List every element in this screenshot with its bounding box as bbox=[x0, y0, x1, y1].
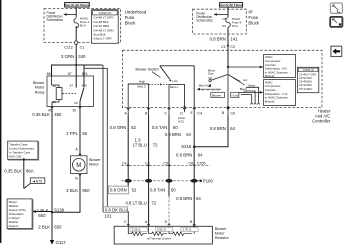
svg-text:52: 52 bbox=[132, 188, 137, 193]
svg-text:C6: C6 bbox=[230, 111, 235, 115]
splice S215 bbox=[181, 144, 195, 149]
reference box HVAC Compressor Controls 2 bbox=[264, 80, 296, 106]
svg-text:0.8 TAN: 0.8 TAN bbox=[150, 188, 165, 193]
svg-text:650: 650 bbox=[38, 213, 46, 218]
svg-text:20 A: 20 A bbox=[232, 24, 239, 28]
svg-text:340: 340 bbox=[78, 54, 86, 59]
wire relay branch down to resistor pin C bbox=[103, 65, 128, 226]
switch base line with left arrow bbox=[196, 88, 221, 91]
wire label 0.8 TAN 50 below P100 bbox=[150, 188, 176, 193]
controller pin B of C6 bbox=[222, 106, 235, 115]
svg-text:650: 650 bbox=[54, 225, 62, 230]
svg-text:Low: Low bbox=[172, 79, 178, 83]
svg-text:CONN ID: CONN ID bbox=[99, 11, 113, 15]
mode labels Blend Door / Off / Max A/C bbox=[199, 69, 216, 88]
nav button back-arrow bbox=[331, 46, 342, 56]
wire 0.8 BRN 141 from ip fuse down bbox=[210, 27, 238, 50]
auto switch pivot and arms bbox=[209, 67, 245, 107]
wire 0.8 ORN 52 pin A bbox=[110, 115, 137, 186]
svg-text:0.8 BRN: 0.8 BRN bbox=[176, 153, 192, 158]
svg-text:0.8 TAN: 0.8 TAN bbox=[152, 125, 167, 130]
svg-text:Relay: Relay bbox=[35, 90, 45, 94]
svg-text:B6: B6 bbox=[47, 72, 51, 76]
svg-text:G6: G6 bbox=[222, 24, 226, 28]
svg-text:72: 72 bbox=[153, 142, 158, 147]
svg-text:87: 87 bbox=[68, 72, 72, 76]
auto controller feed junction bbox=[227, 50, 229, 68]
wire label 0.8 BRN 64 below P100 bbox=[176, 196, 201, 201]
svg-text:64: 64 bbox=[196, 196, 201, 201]
svg-text:1.70 Ω: 1.70 Ω bbox=[182, 228, 192, 232]
boxed wire label 0.8 DK BLU 101 bbox=[104, 207, 128, 218]
wire branch bus to 87A side bbox=[84, 68, 107, 208]
svg-text:Max A/C: Max A/C bbox=[199, 84, 209, 88]
wire stub from Hot label to arrow junction bbox=[75, 7, 77, 18]
svg-text:Off: Off bbox=[208, 76, 212, 80]
svg-text:C7: C7 bbox=[145, 162, 150, 166]
blower switch label and pointer bbox=[136, 68, 161, 78]
svg-text:Motor: Motor bbox=[215, 232, 225, 236]
splice S138 bbox=[51, 208, 65, 214]
reference box HVAC Compressor Controls 1 bbox=[264, 55, 296, 79]
svg-text:C1=48 LT GRY: C1=48 LT GRY bbox=[299, 72, 317, 76]
resistor value labels bbox=[130, 227, 198, 240]
svg-text:Blower: Blower bbox=[212, 93, 221, 97]
label Heater And A/C Controller bbox=[312, 108, 331, 123]
controller pin B bbox=[145, 108, 150, 116]
svg-text:Motor: Motor bbox=[35, 86, 45, 90]
svg-text:LT BLU: LT BLU bbox=[133, 142, 147, 147]
label Hot At All Times (right) bbox=[220, 3, 243, 8]
node relay feed junction bbox=[75, 64, 77, 66]
relay box bbox=[47, 76, 94, 107]
svg-text:Underhood: Underhood bbox=[125, 9, 147, 14]
svg-text:0.35 BLK: 0.35 BLK bbox=[4, 168, 22, 173]
svg-text:0.35 BLK: 0.35 BLK bbox=[32, 112, 50, 117]
svg-text:NVG 236: NVG 236 bbox=[9, 154, 21, 158]
label Hot At All Times (left) bbox=[65, 3, 90, 8]
controller pin D with note bbox=[178, 106, 186, 124]
auto switch tiny labels bbox=[240, 78, 256, 91]
wire stub hot to arrow (right) bbox=[227, 7, 229, 17]
svg-text:2 BLK: 2 BLK bbox=[66, 188, 78, 193]
svg-text:60 A: 60 A bbox=[80, 24, 87, 28]
note Power Distribution Schematics (left) bbox=[47, 11, 64, 22]
svg-text:86A: 86A bbox=[26, 168, 34, 173]
svg-text:CONN ID: CONN ID bbox=[303, 68, 314, 72]
svg-text:Resistor: Resistor bbox=[215, 236, 230, 240]
wire to HVAC compressor reference 2 bbox=[239, 91, 264, 94]
svg-text:Hot At All Times: Hot At All Times bbox=[65, 3, 89, 7]
note Power Distribution Schematics (right) bbox=[196, 12, 213, 23]
svg-text:0.8 ORN: 0.8 ORN bbox=[110, 188, 127, 193]
label Blower Motor Relay bbox=[33, 81, 45, 94]
svg-text:Fuse: Fuse bbox=[125, 15, 135, 20]
svg-text:Block: Block bbox=[248, 21, 260, 26]
svg-text:High: High bbox=[139, 80, 145, 84]
arrow to Power Distribution Schematics (left) bbox=[63, 13, 76, 16]
svg-text:C4(p) LT GRY: C4(p) LT GRY bbox=[93, 37, 112, 41]
svg-text:F8: F8 bbox=[222, 17, 226, 21]
label Underhood Fuse Block bbox=[125, 9, 147, 25]
svg-text:C6: C6 bbox=[188, 162, 193, 166]
svg-text:Door: Door bbox=[208, 72, 214, 76]
svg-text:0.8 BRN: 0.8 BRN bbox=[210, 37, 226, 42]
boxed label Blower bbox=[211, 92, 225, 97]
svg-text:C2=52 BLK: C2=52 BLK bbox=[299, 76, 313, 80]
relay switch contacts and arm bbox=[62, 76, 84, 107]
svg-text:64: 64 bbox=[230, 126, 235, 131]
svg-text:3.24 Ω: 3.24 Ω bbox=[132, 228, 142, 232]
fuse HVAC Fuse 1 60A bbox=[74, 17, 90, 28]
svg-text:30: 30 bbox=[72, 108, 76, 112]
connector row P100 bbox=[122, 179, 214, 184]
svg-text:Blower: Blower bbox=[33, 81, 45, 85]
wire 0.8 BRN 64 pin E upper label bbox=[165, 115, 194, 226]
wire to HVAC compressor reference 1 bbox=[228, 66, 263, 69]
svg-text:C1: C1 bbox=[221, 45, 226, 49]
connector row C205 bbox=[122, 162, 211, 166]
svg-text:141: 141 bbox=[230, 37, 238, 42]
nav button 1 bbox=[330, 3, 342, 13]
svg-text:64: 64 bbox=[198, 153, 203, 158]
svg-text:72: 72 bbox=[151, 200, 156, 205]
resistor pin letters bbox=[124, 220, 196, 228]
svg-text:Blend: Blend bbox=[240, 87, 247, 91]
ground G117 bbox=[50, 236, 67, 245]
conn id table (controller) bbox=[297, 67, 318, 92]
svg-text:Blower Switch: Blower Switch bbox=[136, 68, 159, 72]
wire fuse to box bottom bbox=[75, 26, 77, 41]
nested contact wires to pins bbox=[241, 87, 260, 104]
svg-text:C112: C112 bbox=[64, 45, 73, 49]
svg-text:C205: C205 bbox=[197, 162, 206, 166]
controller pin C bbox=[164, 108, 170, 116]
svg-text:3.02 Ω: 3.02 Ω bbox=[157, 228, 167, 232]
svg-text:Blower: Blower bbox=[89, 158, 101, 162]
svg-text:101: 101 bbox=[104, 213, 112, 218]
svg-text:A/C): A/C) bbox=[178, 119, 184, 123]
svg-text:450: 450 bbox=[54, 112, 62, 117]
relay pin labels outside top bbox=[47, 72, 89, 76]
svg-text:G117: G117 bbox=[56, 240, 67, 245]
svg-text:Schematics: Schematics bbox=[47, 18, 64, 22]
svg-text:C1: C1 bbox=[80, 45, 85, 49]
svg-text:C2: C2 bbox=[230, 45, 235, 49]
svg-text:Block: Block bbox=[125, 20, 137, 25]
relay coil bbox=[52, 76, 63, 107]
wire 1 BLK 650 from wiper box to S138 bbox=[32, 208, 52, 218]
svg-text:64: 64 bbox=[186, 132, 191, 137]
svg-text:0.8 DK BLU: 0.8 DK BLU bbox=[105, 207, 128, 212]
svg-text:I Grd: I Grd bbox=[232, 93, 239, 97]
svg-text:IP: IP bbox=[248, 10, 252, 15]
label IP Fuse Block bbox=[248, 10, 260, 26]
svg-text:C5: C5 bbox=[163, 162, 168, 166]
svg-text:3 ORN: 3 ORN bbox=[61, 54, 74, 59]
wire 0.8 BRN 64 below splice bbox=[176, 153, 203, 158]
svg-text:System: System bbox=[9, 224, 19, 228]
controller pin E and C4 bbox=[191, 108, 202, 116]
svg-text:87: 87 bbox=[70, 84, 74, 88]
blower motor M bbox=[71, 156, 102, 174]
svg-text:Controller: Controller bbox=[312, 118, 331, 123]
svg-text:C3=48 BLK: C3=48 BLK bbox=[299, 80, 313, 84]
svg-text:52: 52 bbox=[131, 125, 136, 130]
svg-text:50: 50 bbox=[171, 188, 176, 193]
blower switch common bus bbox=[160, 66, 194, 108]
wire 2 PPL 65 relay to blower bbox=[66, 107, 87, 156]
svg-text:C: C bbox=[124, 220, 127, 224]
svg-text:30: 30 bbox=[74, 101, 78, 105]
svg-text:S138: S138 bbox=[54, 208, 65, 213]
blower motor resistor box bbox=[114, 226, 229, 244]
wire 0.35 BLK 86A from transfer case box bbox=[4, 158, 33, 188]
svg-text:60: 60 bbox=[173, 125, 178, 130]
svg-text:0.8 BRN: 0.8 BRN bbox=[210, 126, 226, 131]
off-page connector A75 bbox=[24, 178, 45, 189]
connector circle C112/C1 bbox=[64, 41, 84, 50]
underhood fuse block dashed box bbox=[44, 9, 121, 43]
wire 0.8 BRN 64 pin B C6 bbox=[194, 115, 235, 147]
relay pin labels inside bbox=[53, 84, 87, 105]
svg-text:Schematics: Schematics bbox=[196, 19, 213, 23]
svg-text:Blower: Blower bbox=[215, 227, 227, 231]
svg-text:Manual: Manual bbox=[265, 74, 275, 78]
svg-text:P100: P100 bbox=[203, 179, 214, 184]
svg-text:C4: C4 bbox=[197, 111, 202, 115]
reference box Wiper Washer System Schematics bbox=[7, 199, 33, 230]
svg-text:2 BLK: 2 BLK bbox=[38, 225, 50, 230]
wire 0.8 TAN 60 pin C bbox=[152, 115, 179, 226]
wire 3 ORN 340 bbox=[61, 44, 86, 65]
conn id table (underhood) bbox=[92, 10, 119, 44]
svg-text:C4=42 BLK: C4=42 BLK bbox=[299, 83, 313, 87]
arrow to Power Distribution Schematics (right) bbox=[214, 13, 229, 16]
svg-text:0.8 ORN: 0.8 ORN bbox=[110, 125, 127, 130]
svg-text:Med 1: Med 1 bbox=[170, 85, 178, 89]
svg-text:C4: C4 bbox=[122, 162, 127, 166]
svg-text:Ext: Ext bbox=[244, 78, 248, 82]
svg-text:D: D bbox=[180, 111, 183, 115]
ip fuse block dashed box bbox=[193, 9, 247, 34]
svg-text:w/Thermal Limiter: w/Thermal Limiter bbox=[147, 236, 171, 240]
wire 2 BLK 950 blower ground bbox=[52, 174, 90, 213]
blower switch gang dashed link bbox=[149, 84, 169, 86]
svg-text:Hot At All Times: Hot At All Times bbox=[220, 3, 243, 7]
wire relay top bus bbox=[52, 65, 103, 76]
svg-text:D: D bbox=[165, 220, 168, 224]
relay pin labels below bbox=[48, 108, 76, 112]
svg-text:0.8 BRN: 0.8 BRN bbox=[176, 196, 192, 201]
svg-text:S215: S215 bbox=[181, 144, 192, 149]
blower switch arm bbox=[160, 66, 171, 82]
wire label 0.8 LT BLU 72 bbox=[125, 200, 156, 205]
wire 2 BLK 650 to ground bbox=[38, 212, 62, 236]
wire 0.35 BLK 450 relay coil ground bbox=[32, 107, 62, 213]
connector C1/C2 on BRN wire bbox=[221, 45, 235, 49]
svg-text:2 PPL: 2 PPL bbox=[66, 131, 78, 136]
svg-text:M: M bbox=[76, 163, 81, 169]
svg-text:Fuse: Fuse bbox=[248, 15, 258, 20]
svg-text:Manual: Manual bbox=[265, 99, 275, 103]
controller pin A bbox=[125, 108, 130, 116]
svg-text:◄A75: ◄A75 bbox=[32, 179, 42, 183]
left window border bbox=[0, 0, 1, 243]
svg-text:Motor: Motor bbox=[89, 163, 99, 167]
reference box Transfer Case Control Schematics bbox=[8, 141, 39, 160]
svg-text:87A: 87A bbox=[82, 72, 89, 76]
resistor internal wiring and elements bbox=[128, 226, 194, 235]
blower switch bridge High/Med3 bbox=[128, 80, 148, 108]
wire 1.3 LT BLU 72 pin B bbox=[133, 115, 159, 226]
heater and AC controller dashed box bbox=[123, 50, 323, 107]
fuse HVAC Fuse 8 20A with pins F8 G6 bbox=[222, 17, 242, 28]
nav button 2 bbox=[330, 17, 342, 27]
svg-text:0.8 LT BLU: 0.8 LT BLU bbox=[125, 200, 146, 205]
svg-text:950: 950 bbox=[82, 188, 90, 193]
svg-text:C: C bbox=[164, 111, 167, 115]
svg-text:65: 65 bbox=[82, 131, 87, 136]
blower switch bridge Med1/Low bbox=[169, 79, 185, 108]
svg-text:0.8 BRN: 0.8 BRN bbox=[165, 132, 181, 137]
svg-text:C5=44 BLU: C5=44 BLU bbox=[299, 87, 313, 91]
boxed wire label 0.8 ORN 52 below P100 bbox=[108, 186, 137, 194]
boxed label I Grd bbox=[231, 92, 239, 97]
svg-text:Med 3: Med 3 bbox=[137, 85, 145, 89]
